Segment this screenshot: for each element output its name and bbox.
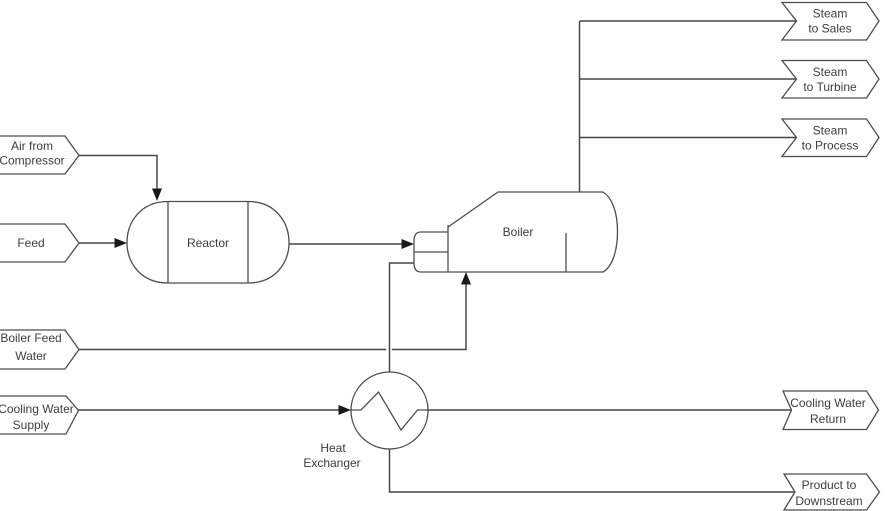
off-page arrow: Feed — [0, 224, 79, 262]
svg-text:to Process: to Process — [802, 139, 859, 153]
wire: exchanger to boiler nozzle riser — [390, 263, 415, 372]
svg-text:Boiler: Boiler — [503, 225, 534, 239]
wire: steam to turbine branch — [580, 78, 797, 80]
boiler nozzle mid line — [414, 251, 448, 253]
arrowhead: feed into reactor — [115, 238, 128, 248]
boiler body outline — [414, 192, 618, 272]
svg-text:Return: Return — [810, 412, 846, 426]
off-page arrow: Cooling Water Supply — [0, 396, 79, 434]
wire: reactor outlet to boiler nozzle — [289, 243, 403, 245]
arrowhead: cooling water into exchanger — [339, 405, 352, 415]
svg-text:Water: Water — [15, 349, 47, 363]
svg-text:Exchanger: Exchanger — [303, 456, 360, 470]
off-page chevron: Steam to Sales — [782, 3, 879, 41]
wire: exchanger bottoms to product — [390, 449, 795, 492]
arrowhead: into reactor top — [152, 189, 162, 202]
svg-text:to Sales: to Sales — [808, 22, 851, 36]
svg-text:Product to: Product to — [802, 478, 857, 492]
svg-text:Air from: Air from — [11, 139, 53, 153]
heat exchanger coil zigzag — [352, 392, 429, 430]
boiler internal baffle — [565, 233, 567, 272]
svg-text:to Turbine: to Turbine — [803, 80, 857, 94]
reactor left head seam — [167, 202, 169, 284]
svg-text:Supply: Supply — [13, 418, 50, 432]
wire: steam to process branch — [580, 137, 797, 139]
svg-text:Steam: Steam — [813, 124, 848, 138]
off-page chevron: Cooling Water Return — [783, 391, 879, 430]
svg-text:Steam: Steam — [813, 65, 848, 79]
wire: exchanger to cooling water return — [428, 409, 791, 411]
svg-text:Heat: Heat — [320, 441, 346, 455]
off-page arrow: Boiler Feed Water — [0, 330, 79, 369]
wire: steam to sales branch — [580, 20, 797, 22]
wire: steam bus riser — [579, 21, 581, 192]
svg-text:Feed: Feed — [17, 236, 44, 250]
svg-text:Steam: Steam — [813, 7, 848, 21]
boiler nozzle seam (vertical) — [447, 225, 449, 272]
svg-text:Reactor: Reactor — [187, 236, 229, 250]
reactor vessel outline — [127, 202, 289, 284]
svg-text:Downstream: Downstream — [795, 494, 862, 508]
wire: cooling water supply to exchanger — [79, 409, 341, 411]
arrowhead: boiler feed water into boiler bottom — [461, 272, 471, 285]
off-page chevron: Steam to Turbine — [782, 61, 879, 99]
heat exchanger shell (circle) — [351, 372, 428, 449]
wire: air from compressor to reactor top — [79, 156, 157, 190]
off-page arrow: Air from Compressor — [0, 136, 79, 174]
arrowhead: into boiler nozzle — [402, 239, 415, 249]
wire: boiler feed water run (with crossover gap) — [79, 284, 466, 350]
svg-text:Compressor: Compressor — [0, 154, 65, 168]
reactor right head seam — [247, 202, 249, 284]
off-page chevron: Product to Downstream — [784, 474, 880, 510]
off-page chevron: Steam to Process — [782, 119, 879, 157]
svg-text:Cooling Water: Cooling Water — [790, 396, 866, 410]
wire: feed to reactor — [79, 242, 116, 244]
svg-text:Cooling Water: Cooling Water — [0, 402, 74, 416]
svg-text:Boiler Feed: Boiler Feed — [0, 331, 61, 345]
